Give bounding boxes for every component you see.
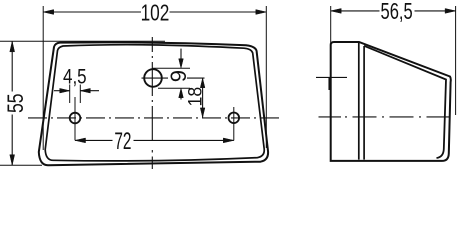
svg-text:55: 55 — [4, 93, 28, 113]
svg-text:4,5: 4,5 — [63, 66, 87, 89]
svg-text:9: 9 — [166, 70, 191, 82]
svg-text:102: 102 — [141, 1, 170, 26]
svg-text:18: 18 — [184, 87, 206, 107]
svg-text:56,5: 56,5 — [381, 0, 413, 25]
svg-text:72: 72 — [114, 129, 131, 155]
